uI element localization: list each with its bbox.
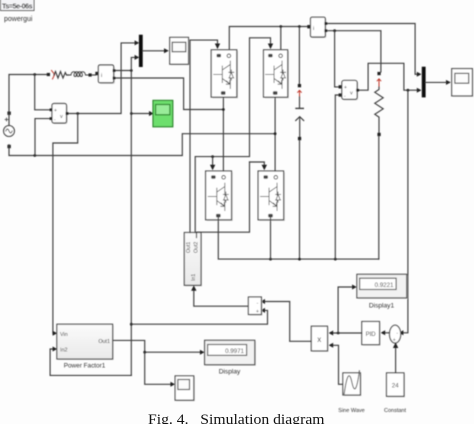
wire: current loop to Power Factor In2 <box>50 349 131 375</box>
Vs top port <box>7 112 10 115</box>
node: gate junction IGBT3 <box>211 155 214 158</box>
Power Factor1 subsystem <box>57 324 114 360</box>
Display block <box>205 340 256 365</box>
wire: source bottom return <box>9 134 275 156</box>
wire into current measurement <box>92 74 96 76</box>
wire: IGBT1 emitter down to IGBT3 collector <box>222 97 224 171</box>
svg-text:+: + <box>393 338 396 344</box>
svg-text:Power Factor1: Power Factor1 <box>64 363 106 370</box>
svg-text:+: + <box>344 85 347 91</box>
wire: gate drop to IGBT3 <box>212 157 214 166</box>
voltage measurement V1 block <box>52 104 68 125</box>
wire: current signal trunk down <box>130 71 132 376</box>
wire: capacitor to bottom bus <box>299 140 301 259</box>
svg-text:i: i <box>101 73 102 79</box>
node: current signal junction <box>130 69 133 72</box>
scope1 <box>170 37 190 65</box>
V1 input ports <box>50 108 53 111</box>
svg-text:0.9971: 0.9971 <box>225 348 244 355</box>
wire: PID signal up to Display1 <box>338 287 352 333</box>
mux2 <box>422 67 426 98</box>
node: bus junction V2 minus <box>334 258 337 261</box>
node: bridge node B <box>274 132 277 135</box>
wire: sum circle out to PID <box>385 332 390 334</box>
wire: V1 signal out <box>67 43 135 114</box>
svg-text:+: + <box>54 108 57 114</box>
wire: down to scope3 <box>145 352 171 384</box>
pulse generator subsystem <box>184 233 202 287</box>
wire: Out2 up to gate bus <box>195 38 270 233</box>
port RL branch output <box>89 73 92 76</box>
V2 minus port <box>339 93 342 96</box>
wire: product out to subtract block <box>265 302 312 342</box>
node: rail junction capacitor <box>298 25 301 28</box>
svg-text:24: 24 <box>392 383 399 390</box>
PID controller block <box>362 322 381 346</box>
svg-text:i: i <box>313 26 314 32</box>
wire: I1 physical out to bridge node A <box>114 78 223 110</box>
node: bus junction capacitor <box>298 258 301 261</box>
wire: IGBT3 emitter to bottom bus <box>218 217 378 259</box>
svg-text:v: v <box>350 91 353 97</box>
voltage measurement V2 block <box>342 80 358 100</box>
red current direction arrow <box>52 71 55 80</box>
V1 output port <box>66 112 69 115</box>
wire: gate branch to IGBT4 <box>250 162 265 165</box>
green scope <box>153 100 173 126</box>
svg-text:Display1: Display1 <box>369 303 395 310</box>
constant 24 block <box>387 373 406 397</box>
wire: into green scope <box>131 113 149 115</box>
IGBT3 <box>206 171 233 221</box>
subtract block <box>248 297 262 316</box>
wire: lower gate loop <box>197 162 250 238</box>
capacitor C bottom port <box>298 137 301 140</box>
svg-text:Fig. 4. Simulation diagram: Fig. 4. Simulation diagram <box>148 412 325 424</box>
wire: capacitor branch top <box>298 27 300 85</box>
svg-text:In1: In1 <box>191 274 197 281</box>
capacitor C element <box>296 97 304 137</box>
wire: Power Factor out to Display <box>113 340 201 352</box>
product block X <box>311 326 328 352</box>
scope2 <box>452 69 474 97</box>
mux1 <box>139 35 143 67</box>
wire: sum output into subsystem In1 <box>194 290 249 306</box>
wire: I2 signal out to mux2 port1 <box>325 24 417 75</box>
powergui block <box>1 0 35 11</box>
wire: V2 signal out to mux2 port2 <box>357 63 417 90</box>
wire: V- sense <box>35 119 52 156</box>
wire: V2 plus sense down <box>335 31 339 87</box>
wire: I2 physical out to load <box>325 31 381 72</box>
wire: IGBT4 emitter to bottom bus <box>270 217 272 259</box>
Vs bottom port <box>7 145 10 148</box>
node: rail junction IGBT2 collector <box>279 25 282 28</box>
wire: voltage signal down to Power Factor Vin <box>53 114 78 334</box>
scope3 <box>175 376 195 401</box>
current measurement I2 input port <box>307 25 310 28</box>
inductor L series <box>67 72 89 77</box>
wire: load bottom to bus <box>378 136 380 259</box>
svg-text:powergui: powergui <box>4 16 33 23</box>
svg-text:Out1: Out1 <box>186 242 192 253</box>
node: junction Display/scope3 <box>143 351 146 354</box>
AC voltage source Vs <box>4 118 15 136</box>
wire: current signal up into mux1 port2 <box>131 57 135 70</box>
sine wave reference block <box>343 371 362 396</box>
wire: sine out to product in2 <box>333 345 343 384</box>
Display1 block <box>357 274 408 299</box>
wire: rail to IGBT2 collector <box>280 27 282 50</box>
node: junction to green scope <box>130 112 133 115</box>
node: junction load top sense <box>333 29 336 32</box>
svg-text:Out1: Out1 <box>98 339 110 345</box>
wire: 24 up to sum circle <box>395 348 397 373</box>
load resistor R element <box>375 87 383 133</box>
svg-text:Sine Wave: Sine Wave <box>338 408 364 414</box>
wire: Out1 up to IGBT1 gate <box>190 40 218 232</box>
wire: IGBT2 emitter down to IGBT4 collector <box>274 97 276 171</box>
svg-text:0.9221: 0.9221 <box>375 282 394 289</box>
svg-text:+: + <box>256 309 259 315</box>
node: PID output junction <box>337 332 340 335</box>
wire: mux1 out to scope1 <box>143 50 165 52</box>
capacitor C top port <box>298 84 301 87</box>
wire: mux2 out to scope2 <box>426 81 447 83</box>
current measurement I1 input port <box>95 72 98 75</box>
svg-text:PID: PID <box>366 332 377 338</box>
node: voltage signal junction <box>76 112 79 115</box>
current measurement block I1 <box>98 65 114 84</box>
node: bus junction IGBT4 emitter <box>269 258 272 261</box>
node: junction current to sum input <box>130 323 133 326</box>
wire: I1 signal out to junction <box>114 70 132 72</box>
svg-text:Display: Display <box>219 368 241 375</box>
V2 plus port <box>339 85 342 88</box>
V2 output port <box>356 89 359 92</box>
svg-text:Constant: Constant <box>384 408 406 414</box>
load resistor R bottom port <box>377 133 380 136</box>
IGBT2 <box>264 50 289 99</box>
wire: current to sum block + input <box>131 310 267 324</box>
I2 output ports <box>324 22 327 25</box>
wire: PID out to product <box>333 332 362 334</box>
node: bridge node A <box>222 108 225 111</box>
wire: V2 minus sense down to bus <box>335 95 339 259</box>
svg-text:In2: In2 <box>60 348 68 354</box>
IGBT4 <box>258 171 285 221</box>
wire: V2 signal feedback down to sum point <box>403 90 408 333</box>
node: junction source/V+ <box>33 73 36 76</box>
node: V2 signal junction <box>407 89 410 92</box>
wire: V+ sense <box>35 75 52 110</box>
svg-text:Ts=5e-06s: Ts=5e-06s <box>2 4 33 11</box>
sum circle (error junction) <box>390 325 401 343</box>
svg-text:Vin: Vin <box>60 332 68 338</box>
node: junction return/V- <box>33 154 36 157</box>
capacitor red direction arrow <box>298 90 302 96</box>
I1 output ports <box>113 69 116 72</box>
load resistor R top port <box>377 72 380 75</box>
port RL branch input <box>47 73 50 76</box>
load red direction arrow <box>377 79 381 87</box>
DC rail top wire <box>229 27 307 50</box>
IGBT1 <box>211 50 238 99</box>
svg-text:x: x <box>317 335 321 344</box>
svg-text:v: v <box>60 114 63 120</box>
current measurement block I2 <box>311 17 327 38</box>
svg-text:-: - <box>396 331 398 337</box>
resistor R series <box>54 72 69 79</box>
wire: source top to series branch <box>9 75 47 126</box>
svg-text:Out2: Out2 <box>194 242 200 253</box>
